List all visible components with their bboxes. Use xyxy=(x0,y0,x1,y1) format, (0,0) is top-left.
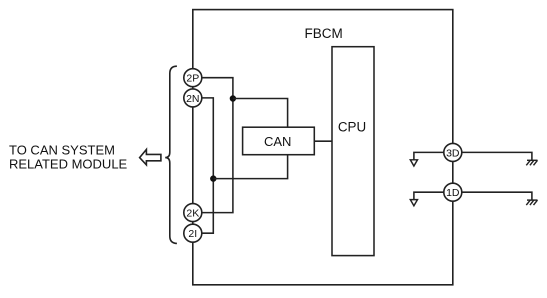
wire 1D right branch xyxy=(462,192,532,200)
pin 2N xyxy=(184,89,202,107)
svg-text:TO CAN SYSTEM: TO CAN SYSTEM xyxy=(9,143,115,158)
wire 3D right branch xyxy=(462,152,532,160)
svg-text:2I: 2I xyxy=(188,228,197,240)
pin 2I xyxy=(184,224,202,242)
FBCM module box xyxy=(193,10,453,285)
wire node A to CAN top xyxy=(233,99,288,128)
pin 2P xyxy=(184,69,202,87)
wire 1D left branch xyxy=(414,192,444,199)
node B junction dot (2N/2I) xyxy=(210,175,216,181)
chassis ground (3D) xyxy=(526,160,537,165)
svg-text:RELATED MODULE: RELATED MODULE xyxy=(9,157,128,172)
svg-text:2K: 2K xyxy=(186,208,199,220)
brace (connector group bracket) xyxy=(165,66,177,243)
svg-text:1D: 1D xyxy=(446,187,460,199)
svg-text:FBCM: FBCM xyxy=(304,26,342,41)
node A junction dot (2P/2K) xyxy=(230,95,236,101)
pin 1D xyxy=(444,183,462,201)
svg-text:CAN: CAN xyxy=(264,134,291,149)
CPU box xyxy=(332,47,374,256)
wire 3D left branch xyxy=(414,152,444,159)
wire CAN to CPU xyxy=(314,140,332,142)
pin 2K xyxy=(184,204,202,222)
chassis ground (1D) xyxy=(526,200,537,205)
block arrow to CAN system xyxy=(140,150,161,165)
down arrow (1D left) xyxy=(410,200,417,206)
svg-text:2P: 2P xyxy=(186,73,199,85)
wire node B to CAN bottom xyxy=(213,155,287,179)
CAN box xyxy=(243,127,315,155)
svg-text:CPU: CPU xyxy=(338,120,366,135)
wire 2N right, down, to 2I xyxy=(202,98,214,233)
down arrow (3D left) xyxy=(410,160,417,166)
svg-text:3D: 3D xyxy=(446,147,460,159)
wire 2P right, down, to 2K xyxy=(202,78,233,213)
pin 3D xyxy=(444,143,462,161)
svg-text:2N: 2N xyxy=(186,93,199,105)
